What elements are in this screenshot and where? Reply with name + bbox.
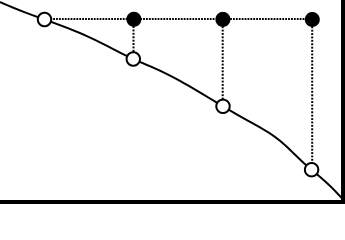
dotted vertical line 2 <box>222 19 224 106</box>
open circle W1 on curve <box>38 13 51 26</box>
dotted vertical line 1 <box>133 19 135 59</box>
open circle W2 on curve <box>127 52 140 65</box>
filled circle B1 <box>126 12 141 27</box>
open circle W4 on curve <box>305 163 318 176</box>
bottom border band <box>0 200 345 204</box>
filled circle B2 <box>215 12 230 27</box>
right border band <box>341 0 345 204</box>
dotted horizontal line <box>45 18 313 20</box>
filled circle B3 <box>305 12 320 27</box>
dotted vertical line 3 <box>311 20 313 170</box>
open circle W3 on curve <box>216 100 229 113</box>
